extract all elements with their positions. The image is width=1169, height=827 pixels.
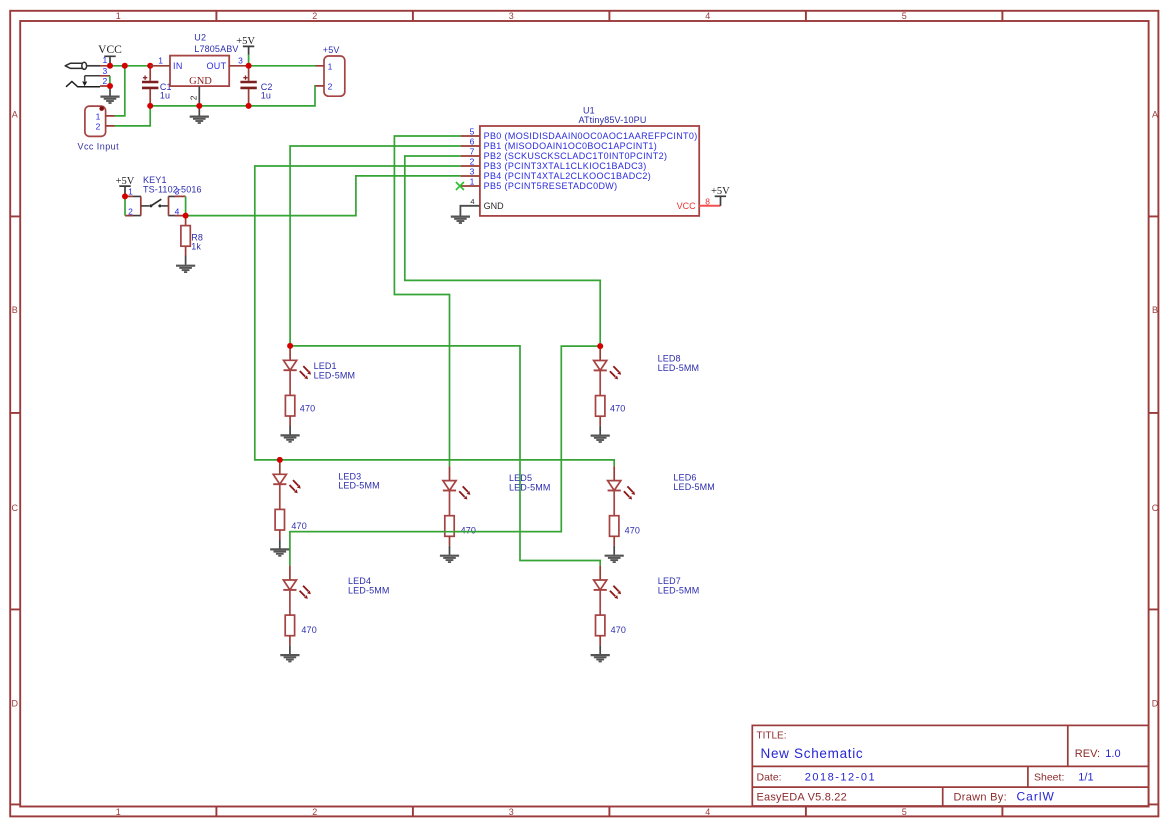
U1 pin stub VCC pin8 [699,205,720,207]
svg-text:LED-5MM: LED-5MM [658,586,700,596]
svg-text:1: 1 [116,11,121,21]
VCC power symbol [98,44,122,66]
svg-text:B: B [12,305,18,315]
svg-text:Date:: Date: [757,772,782,784]
LED LED3 with resistor 470 and ground [270,457,380,556]
junction C1 top on VCC net [147,63,153,69]
svg-text:D: D [12,698,19,708]
svg-text:1: 1 [128,186,133,196]
capacitor C2 1u [240,66,256,106]
svg-text:1: 1 [158,56,163,66]
svg-text:REV:: REV: [1075,748,1100,760]
LED LED7 with resistor 470 and ground [591,566,700,662]
svg-text:B: B [1152,305,1158,315]
junction jack pin2 / ground [107,83,113,89]
wire VCC net to U2 IN [110,65,150,67]
svg-text:470: 470 [610,404,625,414]
svg-text:3: 3 [509,11,514,21]
no-connect X at U1 PB5 [456,182,464,190]
svg-text:PB2 (SCKUSCKSCLADC1T0INT0PCINT: PB2 (SCKUSCKSCLADC1T0INT0PCINT2) [484,151,668,161]
svg-text:+5V: +5V [236,36,255,47]
svg-text:1.0: 1.0 [1105,748,1120,760]
U1 pin stubs PB0,PB1,PB2,PB3,PB4 [461,136,480,176]
svg-text:2: 2 [96,121,101,131]
svg-text:U2: U2 [194,33,206,43]
U1 pin stub PB5 [460,185,480,187]
svg-text:5: 5 [902,807,907,817]
svg-text:TITLE:: TITLE: [757,730,787,741]
svg-text:5: 5 [470,126,475,136]
LED LED1 with resistor 470 and ground [281,343,356,442]
svg-text:3: 3 [509,807,514,817]
LED LED4 with resistor 470 and ground [280,566,389,662]
svg-text:VCC: VCC [677,201,697,211]
wire KEY1 pin1 to pin2 [124,196,126,215]
svg-text:TS-1102-5016: TS-1102-5016 [143,184,202,194]
svg-text:1: 1 [96,111,101,121]
wire LED1 node to LED7 [290,346,600,566]
svg-text:2: 2 [102,76,107,86]
svg-text:IN: IN [173,61,183,71]
+5V power symbol above U2 OUT [236,36,255,66]
svg-text:C: C [1152,503,1159,513]
svg-text:2: 2 [128,207,133,217]
svg-text:L7805ABV: L7805ABV [194,44,238,54]
jack pin stubs 1,3,2 [100,66,110,86]
svg-text:2: 2 [470,156,475,166]
svg-text:+5V: +5V [323,45,340,55]
wire KEY1 pin3 to pin4 [185,196,187,215]
svg-text:1u: 1u [261,90,271,100]
svg-text:4: 4 [705,807,710,817]
svg-text:470: 470 [300,404,315,414]
svg-text:A: A [1152,109,1158,119]
+5V power symbol at U1 pin8 [711,186,730,206]
LED LED8 with resistor 470 and ground [591,343,700,442]
svg-text:+5V: +5V [116,176,135,187]
wire LED8 node to LED4 [290,346,600,565]
svg-text:470: 470 [301,625,316,635]
svg-text:1: 1 [116,807,121,817]
svg-text:LED-5MM: LED-5MM [658,363,700,373]
junction U2 OUT node [246,63,252,69]
junction VCC net at jack pin1 [107,63,113,69]
junction GND rail at C1 [147,103,153,109]
resistor R8 1k [181,216,190,265]
LED LED5 with resistor 470 and ground [440,466,551,562]
svg-text:1: 1 [328,61,333,71]
svg-text:CarlW: CarlW [1017,789,1055,803]
svg-text:D: D [1152,698,1159,708]
svg-text:2: 2 [312,807,317,817]
wire U1 PB1 to LED1 [290,146,461,346]
svg-text:A: A [12,109,18,119]
junction GND rail at U2 pin2 [196,103,202,109]
svg-text:Vcc Input: Vcc Input [78,142,120,152]
svg-text:OUT: OUT [206,61,226,71]
svg-text:7: 7 [470,146,475,156]
+5V power symbol at KEY1 [116,176,135,196]
svg-text:GND: GND [484,201,505,211]
svg-text:4: 4 [175,206,180,216]
svg-text:PB5 (PCINT5RESETADC0DW): PB5 (PCINT5RESETADC0DW) [484,181,618,191]
switch KEY1 TS-1102-5016 [125,186,186,216]
svg-text:8: 8 [705,197,710,207]
wire jack pin3 to pin2 [109,76,111,86]
svg-text:Sheet:: Sheet: [1034,772,1064,784]
svg-text:LED-5MM: LED-5MM [673,482,715,492]
connector J? audio power jack symbol [65,62,100,87]
voltage regulator U2 L7805ABV [150,56,248,106]
connector P1 Vcc Input [85,106,115,136]
GND rail wire C1/U2/C2 to connector pin2 [150,86,316,106]
svg-text:470: 470 [461,526,476,536]
svg-text:New Schematic: New Schematic [761,746,864,761]
svg-text:6: 6 [470,136,475,146]
svg-text:PB3 (PCINT3XTAL1CLKIOC1BADC3): PB3 (PCINT3XTAL1CLKIOC1BADC3) [484,161,647,171]
wire U1 PB3 to LED3/LED6 rail [255,166,614,466]
svg-text:2018-12-01: 2018-12-01 [805,772,876,784]
svg-text:LED-5MM: LED-5MM [338,481,380,491]
wire U1 PB2 to LED8 [405,156,600,346]
junction KEY1 pin4 / R8 node [183,213,189,219]
svg-text:+5V: +5V [711,186,730,197]
svg-text:2: 2 [312,11,317,21]
title block outline [752,725,1148,806]
svg-text:1k: 1k [191,241,201,251]
svg-text:470: 470 [611,625,626,635]
wire Vcc Input pin2 to GND rail [115,106,151,126]
svg-text:2: 2 [189,95,199,100]
ground symbol at jack pin2 [109,86,111,96]
wire U1 PB0 to LED5 [394,136,460,466]
svg-text:VCC: VCC [98,44,122,56]
svg-text:4: 4 [705,11,710,21]
svg-text:PB1 (MISODOAIN1OC0BOC1APCINT1): PB1 (MISODOAIN1OC0BOC1APCINT1) [484,141,658,151]
ground symbol at U2 pin2 [198,106,200,116]
svg-text:PB0 (MOSIDISDAAIN0OC0AOC1AAREF: PB0 (MOSIDISDAAIN0OC0AOC1AAREFPCINT0) [484,131,698,141]
junction +5V at KEY1 pin1 [122,193,128,199]
IC U1 ATtiny85V-10PU [460,126,721,216]
wire segment LED8-to-LED4 crossing over LED5 resistor [290,531,561,533]
capacitor C1 1u [142,66,158,106]
svg-text:GND: GND [189,76,212,87]
LED LED6 with resistor 470 and ground [605,466,715,562]
svg-text:2: 2 [328,81,333,91]
wire VCC net down to Vcc Input pin1 [115,66,125,116]
svg-text:1: 1 [470,176,475,186]
ground symbol below R8 [176,266,195,272]
svg-text:1/1: 1/1 [1078,772,1093,784]
junction GND rail at C2 [246,103,252,109]
svg-text:LED-5MM: LED-5MM [509,483,551,493]
svg-text:3: 3 [470,166,475,176]
junction VCC net branch [122,63,128,69]
svg-text:Drawn By:: Drawn By: [954,791,1007,803]
ground symbol at U1 pin4 [451,217,470,223]
svg-text:PB4 (PCINT4XTAL2CLKOOC1BADC2): PB4 (PCINT4XTAL2CLKOOC1BADC2) [484,171,652,181]
wire U2 OUT to +5V connector [249,65,316,67]
connector P2 +5V output [316,56,345,96]
svg-text:3: 3 [102,66,107,76]
svg-text:470: 470 [625,526,640,536]
U1 pin stub GND pin4 [460,206,480,216]
svg-text:5: 5 [902,11,907,21]
svg-text:1u: 1u [160,90,170,100]
svg-text:LED-5MM: LED-5MM [314,370,356,380]
svg-text:LED-5MM: LED-5MM [348,586,390,596]
svg-text:4: 4 [470,197,474,206]
wire KEY1/R8 node to U1 PB4 [186,176,461,216]
svg-text:C: C [12,503,19,513]
svg-text:EasyEDA V5.8.22: EasyEDA V5.8.22 [757,791,847,803]
svg-text:470: 470 [291,521,306,531]
svg-text:3: 3 [238,56,243,66]
svg-text:ATtiny85V-10PU: ATtiny85V-10PU [579,115,647,125]
